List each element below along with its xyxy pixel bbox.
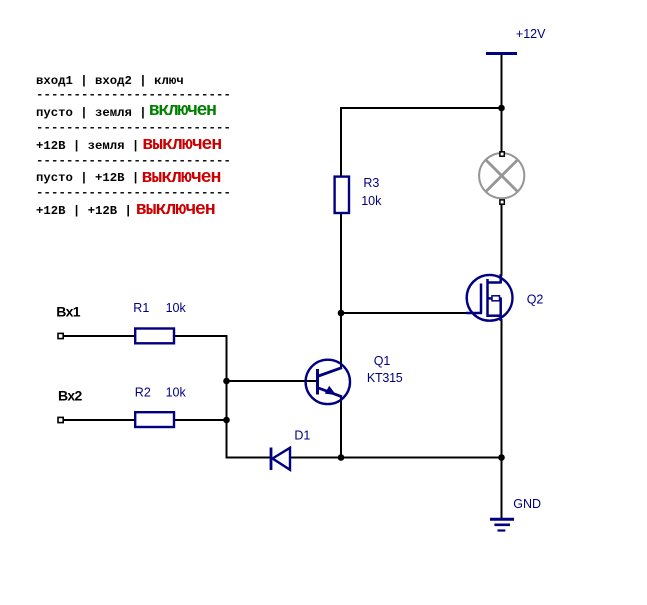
svg-text:10k: 10k: [166, 385, 187, 399]
svg-text:+12V: +12V: [516, 27, 546, 41]
svg-text:Q2: Q2: [527, 292, 544, 306]
svg-text:R3: R3: [363, 176, 379, 190]
svg-text:10k: 10k: [361, 194, 382, 208]
svg-text:Q1: Q1: [374, 354, 391, 368]
svg-text:Вх2: Вх2: [58, 388, 83, 404]
svg-text:Вх1: Вх1: [56, 304, 81, 320]
svg-text:R1: R1: [133, 301, 149, 315]
svg-text:10k: 10k: [166, 301, 187, 315]
svg-text:R2: R2: [135, 385, 151, 399]
svg-text:KT315: KT315: [367, 371, 403, 385]
svg-text:D1: D1: [294, 428, 310, 442]
svg-text:GND: GND: [513, 497, 541, 511]
